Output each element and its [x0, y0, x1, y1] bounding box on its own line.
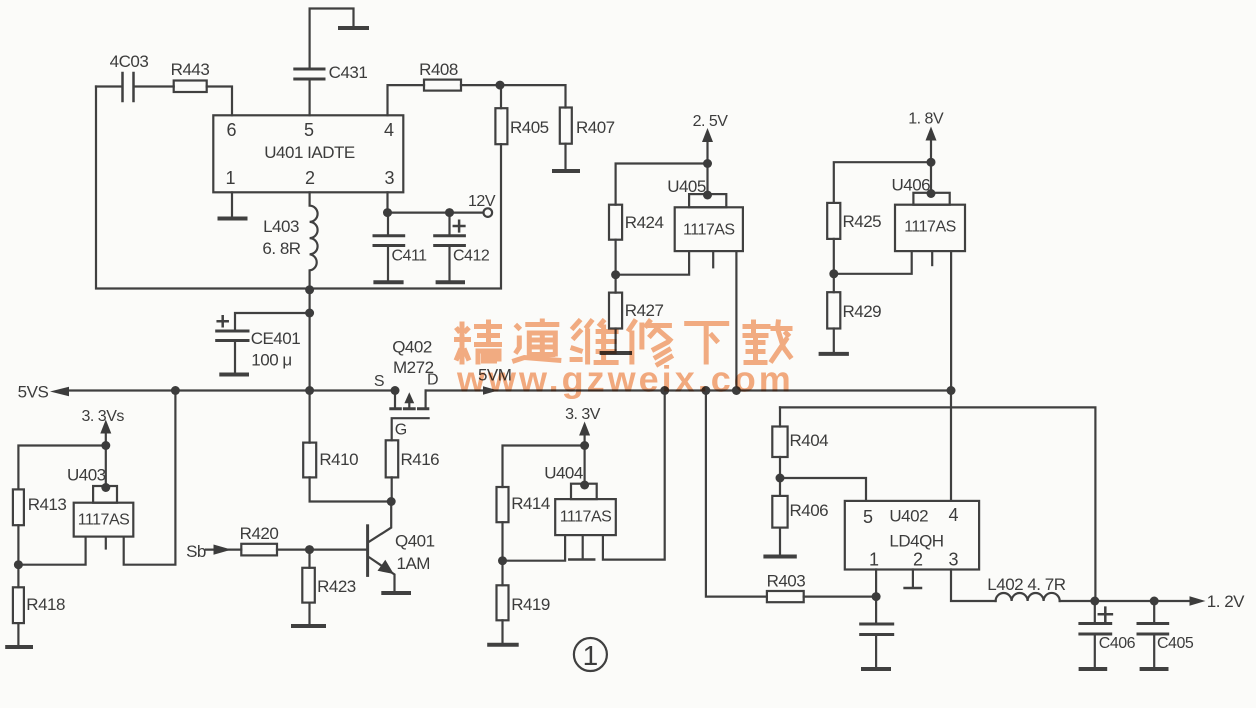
svg-text:R427: R427 — [625, 301, 664, 320]
svg-text:C431: C431 — [329, 63, 368, 82]
svg-text:R424: R424 — [625, 213, 664, 232]
svg-text:Sb: Sb — [186, 542, 206, 561]
svg-text:C411: C411 — [392, 248, 428, 265]
svg-text:5: 5 — [304, 120, 314, 140]
svg-text:1. 8V: 1. 8V — [908, 111, 944, 128]
svg-text:R416: R416 — [401, 450, 440, 469]
svg-text:LD4QH: LD4QH — [889, 532, 943, 551]
svg-text:6. 8R: 6. 8R — [262, 239, 300, 258]
svg-text:G: G — [395, 422, 407, 439]
svg-text:1117AS: 1117AS — [78, 512, 130, 529]
svg-text:U406: U406 — [892, 176, 931, 195]
svg-text:www.gzweix.com: www.gzweix.com — [456, 359, 794, 400]
svg-text:Q401: Q401 — [395, 532, 435, 551]
svg-text:2. 5V: 2. 5V — [693, 113, 729, 130]
svg-text:R420: R420 — [240, 524, 279, 543]
svg-text:R406: R406 — [790, 501, 829, 520]
svg-text:6: 6 — [226, 120, 236, 140]
svg-text:4C03: 4C03 — [110, 52, 149, 71]
svg-text:R414: R414 — [511, 494, 550, 513]
svg-text:Q402: Q402 — [392, 338, 432, 357]
svg-text:CE401: CE401 — [251, 329, 301, 348]
svg-text:L402 4. 7R: L402 4. 7R — [987, 575, 1065, 594]
svg-text:U402: U402 — [889, 507, 928, 526]
svg-text:U401 IADTE: U401 IADTE — [264, 143, 355, 162]
svg-text:1117AS: 1117AS — [683, 222, 735, 239]
svg-text:U405: U405 — [667, 177, 706, 196]
svg-text:1: 1 — [583, 640, 599, 671]
svg-text:3. 3Vs: 3. 3Vs — [82, 408, 125, 425]
svg-text:R425: R425 — [843, 212, 882, 231]
svg-text:1AM: 1AM — [397, 554, 430, 573]
svg-text:R418: R418 — [26, 595, 65, 614]
svg-text:L403: L403 — [263, 217, 299, 236]
svg-text:D: D — [427, 372, 438, 389]
svg-text:2: 2 — [305, 168, 315, 188]
svg-text:1117AS: 1117AS — [904, 219, 956, 236]
svg-text:R419: R419 — [511, 595, 550, 614]
svg-text:3: 3 — [948, 550, 958, 570]
svg-text:5VS: 5VS — [18, 383, 49, 402]
svg-text:C406: C406 — [1099, 635, 1136, 652]
svg-text:3. 3V: 3. 3V — [565, 406, 601, 423]
svg-text:1: 1 — [225, 168, 235, 188]
svg-text:S: S — [374, 373, 384, 390]
svg-text:U403: U403 — [67, 466, 106, 485]
svg-text:R443: R443 — [171, 60, 210, 79]
svg-text:R404: R404 — [790, 431, 829, 450]
svg-text:C405: C405 — [1157, 635, 1194, 652]
svg-text:2: 2 — [913, 550, 923, 570]
svg-text:100 μ: 100 μ — [251, 351, 291, 370]
svg-text:1: 1 — [869, 550, 879, 570]
svg-text:R413: R413 — [28, 495, 67, 514]
svg-text:U404: U404 — [544, 464, 583, 483]
svg-text:R403: R403 — [767, 572, 806, 591]
svg-text:12V: 12V — [468, 193, 496, 210]
svg-text:R410: R410 — [319, 450, 358, 469]
svg-text:4: 4 — [384, 120, 394, 140]
svg-text:R405: R405 — [510, 118, 549, 137]
svg-text:R423: R423 — [317, 577, 356, 596]
svg-text:4: 4 — [948, 505, 958, 525]
svg-text:1. 2V: 1. 2V — [1207, 592, 1245, 611]
svg-text:C412: C412 — [453, 248, 490, 265]
svg-text:R408: R408 — [419, 60, 458, 79]
svg-text:3: 3 — [384, 168, 394, 188]
svg-text:R407: R407 — [576, 118, 615, 137]
svg-text:5: 5 — [863, 507, 873, 527]
svg-text:1117AS: 1117AS — [560, 509, 612, 526]
svg-text:R429: R429 — [843, 302, 882, 321]
